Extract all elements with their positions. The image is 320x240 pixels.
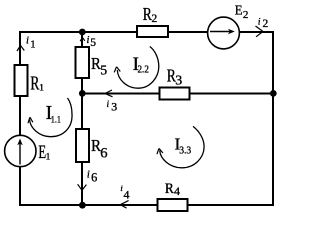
svg-text:i: i (87, 35, 90, 46)
resistor R1 (15, 65, 45, 96)
loop current arrow I2.2 (114, 47, 159, 89)
resistor R4 (158, 181, 188, 211)
source E1 (5, 135, 51, 166)
svg-text:4: 4 (174, 184, 180, 198)
junction node centre of circuit (79, 90, 86, 97)
loop current arrow I1.1 (28, 98, 72, 137)
svg-text:3: 3 (111, 100, 117, 114)
current arrow i3 (105, 90, 117, 114)
current arrow i4 (120, 183, 129, 208)
resistor R3 (160, 65, 190, 99)
svg-text:R: R (165, 181, 174, 197)
current arrow i1 (17, 36, 36, 51)
resistor R2 (137, 4, 168, 37)
svg-text:i: i (26, 36, 29, 47)
svg-text:1: 1 (30, 39, 35, 51)
wire bottom: node D to node C (19, 204, 274, 206)
junction node at top of middle branch (79, 29, 86, 36)
resistor R6 (76, 129, 108, 162)
svg-text:2: 2 (243, 9, 249, 21)
svg-text:E: E (235, 2, 243, 17)
svg-text:i: i (258, 18, 261, 28)
svg-text:6: 6 (91, 171, 97, 185)
current arrow i6 (78, 170, 98, 191)
svg-text:5: 5 (100, 63, 107, 78)
svg-text:3: 3 (175, 74, 182, 89)
wire middle horizontal branch (82, 93, 273, 95)
loop current arrow I3.3 (157, 126, 204, 167)
wire middle vertical branch (81, 31, 83, 206)
svg-text:5: 5 (90, 37, 96, 49)
svg-text:i: i (87, 170, 90, 181)
svg-text:3.3: 3.3 (179, 145, 191, 157)
svg-text:4: 4 (124, 187, 130, 201)
source E2 (208, 2, 249, 49)
svg-text:1: 1 (46, 151, 51, 161)
svg-text:1: 1 (39, 84, 44, 94)
wire left: node A down to node D (19, 31, 21, 206)
wire right: node B down to node C (272, 31, 274, 206)
wire top: node A to node B (19, 31, 274, 33)
svg-text:2.2: 2.2 (138, 65, 149, 76)
svg-text:i: i (107, 100, 110, 110)
current arrow i5 (80, 35, 96, 49)
svg-text:1.1: 1.1 (51, 114, 61, 125)
junction node on right wire (270, 90, 277, 97)
svg-text:R: R (30, 74, 39, 95)
svg-text:6: 6 (100, 146, 107, 162)
resistor R5 (76, 47, 108, 78)
svg-text:2: 2 (152, 13, 158, 25)
svg-text:2: 2 (263, 18, 269, 30)
current arrow i2 (256, 18, 269, 37)
junction node bottom of middle branch (79, 202, 86, 209)
